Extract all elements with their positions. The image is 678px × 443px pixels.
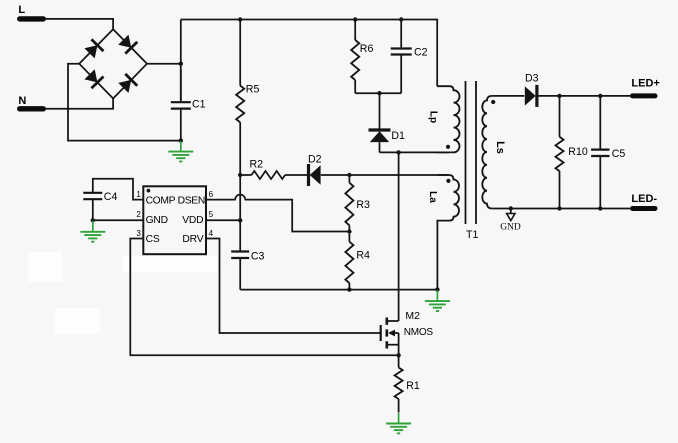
svg-text:D3: D3 [525,73,539,85]
svg-text:5: 5 [209,210,214,219]
svg-text:La: La [427,191,438,203]
svg-text:GND: GND [146,215,168,226]
svg-text:2: 2 [136,210,141,219]
svg-text:LED-: LED- [631,193,657,205]
svg-text:Ls: Ls [494,141,506,154]
svg-text:R2: R2 [250,159,264,171]
svg-text:CS: CS [146,234,160,245]
svg-text:GND: GND [500,223,521,233]
svg-text:VDD: VDD [182,215,203,226]
svg-text:R5: R5 [246,84,260,96]
svg-text:DRV: DRV [182,234,203,245]
svg-text:T1: T1 [466,229,478,241]
svg-text:L: L [18,4,25,16]
svg-text:C4: C4 [104,191,118,203]
svg-text:4: 4 [209,229,214,238]
svg-text:R3: R3 [356,199,370,211]
svg-text:N: N [18,95,26,107]
svg-text:DSEN: DSEN [178,195,205,206]
svg-text:LED+: LED+ [631,78,659,90]
svg-text:COMP: COMP [146,195,176,206]
svg-text:NMOS: NMOS [404,327,434,338]
svg-text:R4: R4 [356,250,370,262]
svg-text:M2: M2 [405,310,420,322]
svg-text:C5: C5 [612,148,626,160]
svg-text:1: 1 [136,190,141,199]
svg-text:R6: R6 [360,43,374,55]
svg-text:R10: R10 [568,146,588,158]
svg-text:C2: C2 [414,47,428,59]
svg-text:6: 6 [209,190,214,199]
svg-text:D2: D2 [308,153,322,165]
svg-text:D1: D1 [391,130,405,142]
svg-text:C1: C1 [192,99,206,111]
svg-text:C3: C3 [251,251,265,263]
svg-text:Lp: Lp [427,111,438,123]
svg-text:3: 3 [136,229,141,238]
svg-text:R1: R1 [406,380,420,392]
